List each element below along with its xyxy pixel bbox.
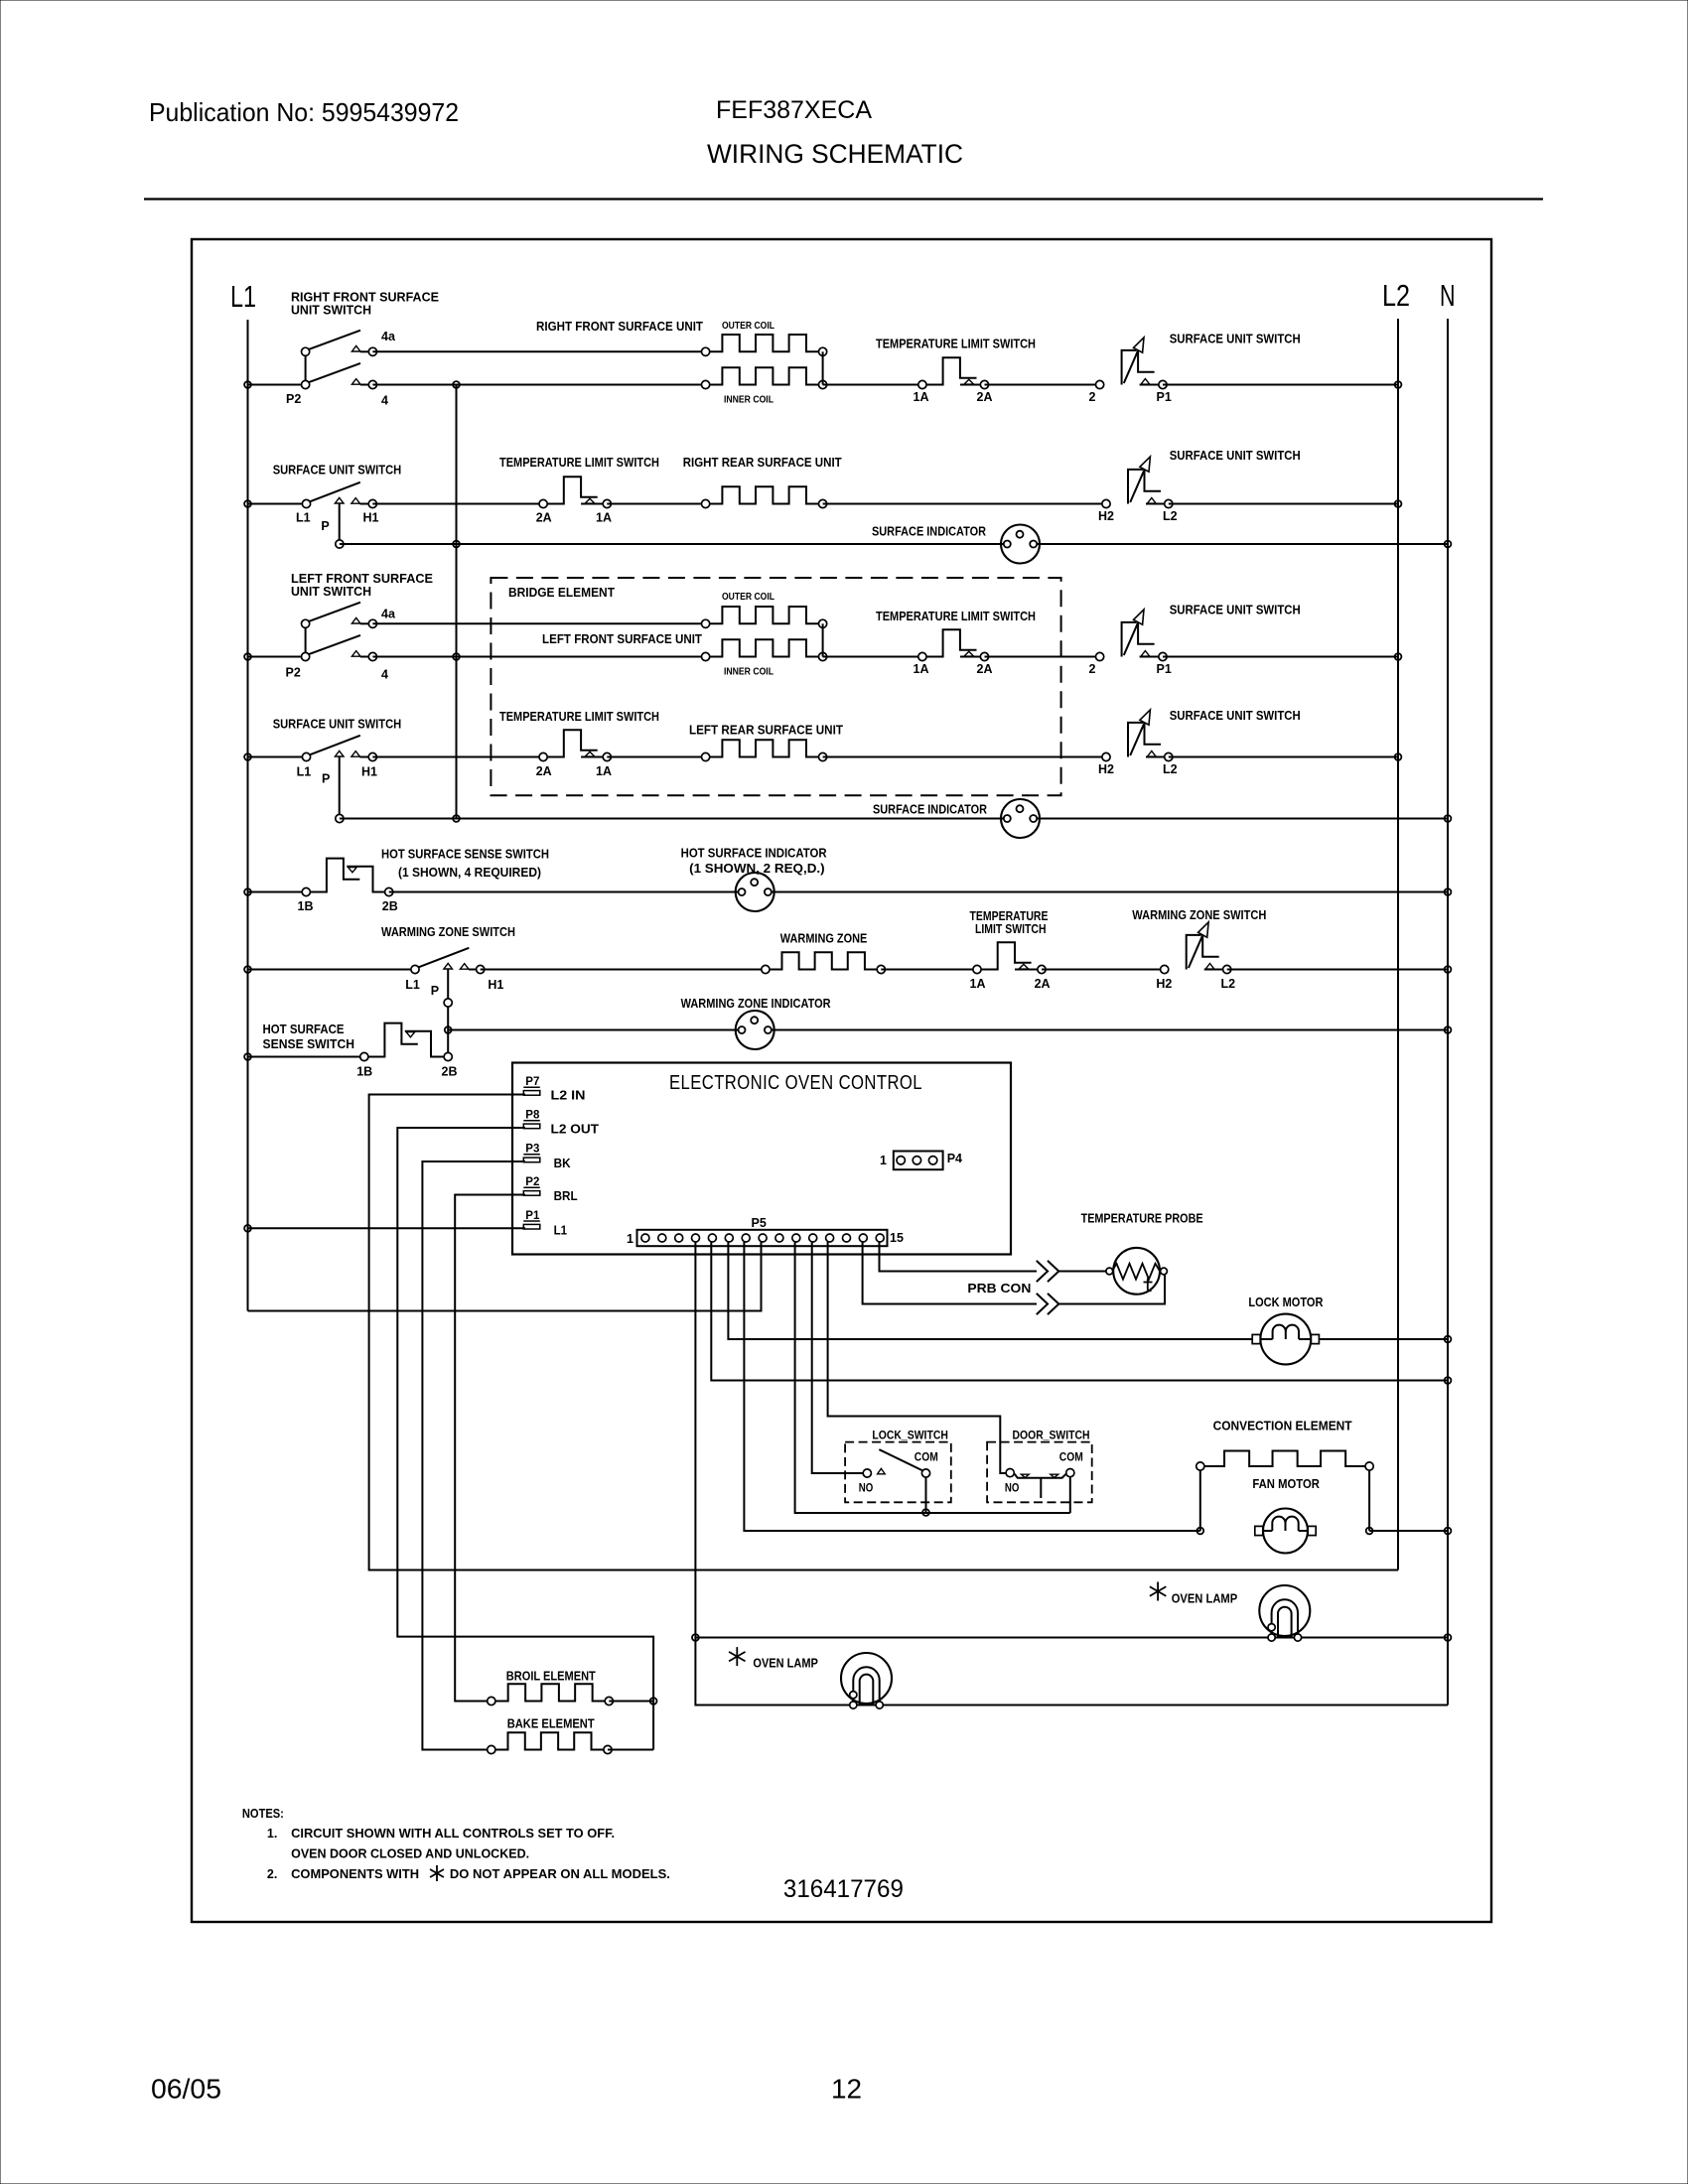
node warming P junction [445,1026,452,1033]
svg-text:2A: 2A [1035,977,1051,991]
wire P3 BK to bake element [422,1161,525,1750]
warming zone switch right H2/L2 [1161,922,1231,974]
svg-text:2A: 2A [536,764,552,778]
svg-text:P7: P7 [525,1076,539,1088]
bake element coil [488,1732,612,1753]
wire row3 L1 to P2 [248,656,306,658]
node P1 on L1 bus [244,1225,251,1232]
svg-text:L1: L1 [296,511,311,525]
wire P2 BRL to broil element [455,1195,525,1702]
connector chevrons PRB feed [1037,1261,1059,1282]
svg-text:NO: NO [1005,1483,1020,1495]
svg-text:2A: 2A [536,511,552,525]
svg-text:1A: 1A [914,390,929,404]
temperature limit switch row1 1A/2A [918,357,989,388]
node pin4 junction oven lamp1 line [692,1634,699,1641]
EOC terminal P7 L2 IN [523,1076,540,1095]
svg-text:P1: P1 [525,1210,540,1222]
node junction row1 on L1 [244,381,251,388]
left front surface unit switch P2/4a/4 [302,603,377,661]
svg-text:1A: 1A [970,977,986,991]
wire P5 pin6 to lock motor [728,1242,1252,1339]
svg-text:COMPONENTS WITH: COMPONENTS WITH [291,1867,419,1881]
node row1 on L2 [1395,381,1402,388]
svg-text:P4: P4 [947,1152,962,1165]
wire 4a to outer coil [372,350,705,352]
svg-text:LOCK_SWITCH: LOCK_SWITCH [872,1431,948,1442]
wire bake to junction [608,1749,653,1751]
oven lamp1 label asterisk [1150,1582,1166,1601]
svg-text:4: 4 [381,394,388,408]
svg-text:L1: L1 [554,1224,568,1238]
svg-text:RIGHT FRONT SURFACE: RIGHT FRONT SURFACE [291,291,439,305]
wire P1 L1 [248,1227,526,1229]
svg-text:1.: 1. [267,1827,277,1841]
svg-text:UNIT SWITCH: UNIT SWITCH [291,304,371,318]
svg-text:Publication No: 5995439972: Publication No: 5995439972 [149,97,459,127]
svg-text:L2: L2 [1221,977,1236,991]
left front surface unit inner coil [702,639,827,660]
svg-text:OUTER COIL: OUTER COIL [722,591,774,603]
svg-text:L2: L2 [1382,278,1410,313]
svg-text:1A: 1A [914,662,929,676]
wire 2A to H2 warming [1042,969,1165,971]
node indicator1 junction x459 [453,541,460,548]
svg-text:TEMPERATURE: TEMPERATURE [970,909,1049,923]
surface unit switch row4 H2/L2 [1102,710,1173,761]
wire oven lamp1 line [695,1637,1448,1639]
wire convection right leg [1368,1470,1370,1531]
node junction row3 / vertical [453,653,460,660]
svg-text:2.: 2. [267,1867,277,1881]
wire P5 pin4 to oven lamps [695,1242,1448,1706]
surface unit switch row1 2/P1 [1096,338,1168,389]
svg-text:P: P [431,984,439,998]
svg-text:COM: COM [1059,1452,1083,1464]
wire warming coil to 1A [881,969,977,971]
node fan line on N [1445,1528,1452,1535]
surface indicator 2 lamp [1001,799,1040,838]
svg-text:WIRING SCHEMATIC: WIRING SCHEMATIC [707,139,963,169]
node hss1 on N [1445,888,1452,895]
svg-text:P: P [322,772,330,786]
right front surface unit switch P2/4a/4 [302,331,377,389]
svg-text:LIMIT SWITCH: LIMIT SWITCH [975,922,1047,936]
node lock COM junction [922,1509,929,1516]
wire warming row left [248,969,416,971]
temperature limit switch warming 1A/2A [973,942,1046,973]
node row2 on L2 [1395,500,1402,507]
node row3 on L2 [1395,653,1402,660]
oven lamp 2 [841,1653,892,1708]
svg-text:TEMPERATURE LIMIT SWITCH: TEMPERATURE LIMIT SWITCH [876,338,1036,351]
node indicator2 on N [1445,815,1452,822]
svg-text:P2: P2 [525,1176,539,1188]
svg-text:2A: 2A [977,390,993,404]
svg-text:2B: 2B [382,899,398,913]
wire L2 terminal to L2 bus row2 [1169,503,1398,505]
wire warming zone indicator line [448,1029,1448,1031]
svg-text:INNER COIL: INNER COIL [724,666,774,678]
svg-text:(1 SHOWN, 2 REQ,D.): (1 SHOWN, 2 REQ,D.) [689,862,825,876]
svg-text:LOCK MOTOR: LOCK MOTOR [1248,1296,1323,1309]
node warming on N [1445,966,1452,973]
svg-text:LEFT FRONT SURFACE: LEFT FRONT SURFACE [291,572,433,586]
svg-text:4a: 4a [381,608,396,621]
warming zone switch L1/P/H1 [411,948,485,1057]
wire convection left leg [1199,1470,1201,1531]
svg-text:NOTES:: NOTES: [242,1807,284,1821]
svg-text:4a: 4a [381,330,396,343]
svg-text:TEMPERATURE LIMIT SWITCH: TEMPERATURE LIMIT SWITCH [876,610,1036,623]
svg-text:CONVECTION ELEMENT: CONVECTION ELEMENT [1213,1420,1352,1433]
wire lock motor to N [1319,1338,1448,1340]
right front surface unit inner coil [702,367,827,388]
svg-text:ELECTRONIC OVEN CONTROL: ELECTRONIC OVEN CONTROL [669,1072,922,1094]
wire P5 pin10 to lock/door COM [795,1242,1070,1513]
svg-text:L1: L1 [405,978,420,992]
svg-text:L2 OUT: L2 OUT [551,1123,600,1137]
svg-text:12: 12 [831,2074,862,2105]
wire H1 to warming coil [481,969,766,971]
svg-text:N: N [1440,278,1456,313]
right front surface unit outer coil [702,335,827,355]
node convection right on fan line [1366,1528,1373,1535]
svg-text:BRIDGE ELEMENT: BRIDGE ELEMENT [508,586,615,600]
svg-text:OVEN LAMP: OVEN LAMP [753,1657,818,1671]
wire coil to H2 row2 [823,503,1106,505]
svg-text:NO: NO [859,1483,874,1495]
svg-text:L1: L1 [297,765,312,779]
surface unit switch row3 2/P1 [1096,610,1168,661]
node junction row1 / vertical drop [453,381,460,388]
connector P5 [637,1230,888,1246]
node row4 on L2 [1395,753,1402,760]
wire row4 L1 to switch [248,756,307,758]
svg-text:COM: COM [914,1452,938,1464]
node hss1 on L1 [244,888,251,895]
svg-text:PRB CON: PRB CON [967,1282,1031,1296]
wire L1 bus vertical [247,320,249,1311]
EOC terminal P3 BK [523,1144,540,1162]
svg-text:FAN MOTOR: FAN MOTOR [1252,1477,1320,1491]
wire P5 pin14 to probe return [863,1242,1037,1304]
wire P7 to L2 bus (L2 IN) [369,1095,1398,1570]
EOC terminal P1 L1 [523,1210,540,1229]
wire 4 to inner coil row3 [372,656,705,658]
svg-text:OVEN DOOR CLOSED AND UNLOCKED.: OVEN DOOR CLOSED AND UNLOCKED. [291,1847,529,1861]
wire 4 to inner coil [372,384,705,386]
svg-text:H2: H2 [1156,977,1172,991]
svg-text:SURFACE UNIT SWITCH: SURFACE UNIT SWITCH [273,464,402,478]
svg-text:BK: BK [554,1157,571,1170]
svg-text:TEMPERATURE LIMIT SWITCH: TEMPERATURE LIMIT SWITCH [499,456,659,470]
svg-text:H2: H2 [1098,762,1114,776]
broil element coil [488,1684,614,1705]
node lamp1 line on N [1445,1634,1452,1641]
svg-text:1B: 1B [298,899,314,913]
svg-text:P1: P1 [1157,662,1172,676]
svg-text:SURFACE UNIT SWITCH: SURFACE UNIT SWITCH [1170,333,1301,346]
svg-text:WARMING ZONE: WARMING ZONE [780,932,868,946]
svg-text:1A: 1A [596,511,612,525]
svg-text:2A: 2A [977,662,993,676]
connector P4 [894,1152,943,1170]
wire row1 L1 to P2 [248,384,306,386]
node wz indicator on N [1445,1026,1452,1033]
svg-text:BRL: BRL [554,1189,578,1203]
svg-text:4: 4 [381,668,388,682]
node indicator1 on N [1445,541,1452,548]
surface unit switch row4 L1/P/H1 [302,736,376,819]
svg-text:H2: H2 [1098,509,1114,523]
surface indicator 1 lamp [1001,525,1040,564]
svg-text:CIRCUIT SHOWN WITH ALL CONTROL: CIRCUIT SHOWN WITH ALL CONTROLS SET TO O… [291,1827,615,1841]
wire coil join vertical [822,351,824,384]
svg-text:INNER COIL: INNER COIL [724,394,774,406]
surface unit switch row2 H2/L2 [1102,457,1173,508]
svg-text:SURFACE INDICATOR: SURFACE INDICATOR [873,803,987,817]
svg-text:L1: L1 [230,279,256,314]
wire P1 to L2 [1163,384,1398,386]
hot surface sense switch 2 1B/2B [360,1024,453,1061]
fan motor [1255,1509,1316,1554]
node convection left on fan line [1196,1528,1203,1535]
hot surface indicator lamp [736,873,774,911]
svg-text:1: 1 [880,1154,887,1167]
svg-text:SENSE SWITCH: SENSE SWITCH [263,1037,355,1051]
wire P5 pin7 to fan motor line [744,1242,1199,1531]
wire H1 to 2A row4 [372,756,543,758]
wire P5 pin12 to door switch NO [828,1242,1007,1473]
wire 1A to coil row2 [607,503,705,505]
wire row2 L1 to switch [248,503,307,505]
svg-text:DO NOT APPEAR ON ALL MODELS.: DO NOT APPEAR ON ALL MODELS. [450,1867,670,1881]
EOC terminal P8 L2 OUT [523,1110,540,1129]
EOC terminal P2 BRL [523,1176,540,1195]
node junction row3 on L1 [244,653,251,660]
title rule [144,198,1543,200]
temperature limit switch row4 2A/1A [539,730,611,760]
wire chevron to probe [1059,1271,1110,1273]
notes asterisk [430,1865,444,1881]
svg-text:2: 2 [1089,390,1096,404]
svg-text:UNIT SWITCH: UNIT SWITCH [291,585,371,599]
svg-text:LEFT REAR SURFACE UNIT: LEFT REAR SURFACE UNIT [689,724,843,738]
node junction row2 on L1 [244,500,251,507]
svg-text:316417769: 316417769 [783,1875,904,1903]
wire 4a to outer coil row3 [372,622,705,624]
electronic oven control box [512,1063,1011,1255]
door switch dashed box [987,1442,1092,1503]
convection element coil [1196,1451,1373,1471]
temperature limit switch row2 2A/1A [539,477,611,507]
svg-text:1: 1 [627,1232,633,1246]
wire L1 bus to P5 pin8 [248,1242,762,1311]
svg-text:WARMING ZONE SWITCH: WARMING ZONE SWITCH [381,925,515,939]
wire inner coil to 1A [823,384,922,386]
bridge element dashed box [491,578,1060,795]
svg-text:DOOR_SWITCH: DOOR_SWITCH [1013,1431,1090,1442]
svg-text:H1: H1 [363,511,379,525]
node broil junction [650,1698,657,1705]
wire fan line to N [1369,1530,1448,1532]
svg-text:SURFACE INDICATOR: SURFACE INDICATOR [872,525,986,539]
node junction row4 on L1 [244,753,251,760]
right rear surface unit coil [702,486,827,507]
svg-text:HOT SURFACE INDICATOR: HOT SURFACE INDICATOR [681,847,827,861]
wire P5 pin5 to N [711,1242,1448,1381]
lock switch dashed box [845,1442,951,1503]
svg-text:WARMING ZONE SWITCH: WARMING ZONE SWITCH [1132,908,1266,922]
wire surface indicator2 line [336,814,1448,822]
warming zone indicator lamp [736,1011,774,1049]
svg-text:SURFACE UNIT SWITCH: SURFACE UNIT SWITCH [1170,709,1301,723]
svg-text:TEMPERATURE PROBE: TEMPERATURE PROBE [1081,1212,1203,1226]
svg-text:TEMPERATURE LIMIT SWITCH: TEMPERATURE LIMIT SWITCH [499,710,659,724]
door switch contacts [1006,1469,1074,1514]
svg-text:P8: P8 [525,1110,540,1122]
lock switch contacts [863,1449,929,1512]
wire L2 terminal to L2 bus row4 [1169,756,1398,758]
svg-text:HOT SURFACE: HOT SURFACE [263,1023,345,1036]
wire inner coil to 1A row3 [823,656,922,658]
hot surface sense switch 1B/2B [302,859,393,896]
svg-text:P1: P1 [1157,390,1172,404]
svg-text:L2 IN: L2 IN [551,1089,586,1103]
wire 2A to 2 [985,384,1100,386]
oven lamp 1 [1259,1585,1310,1641]
wire 1A to coil row4 [607,756,705,758]
node lock motor line on N [1445,1336,1452,1343]
svg-text:OUTER COIL: OUTER COIL [722,320,774,332]
svg-text:LEFT FRONT SURFACE UNIT: LEFT FRONT SURFACE UNIT [542,632,702,646]
svg-text:H1: H1 [488,978,503,992]
svg-text:1A: 1A [596,764,612,778]
node hss2 on L1 [244,1053,251,1060]
node pin5 line on N [1445,1377,1452,1384]
svg-text:BAKE ELEMENT: BAKE ELEMENT [507,1717,595,1731]
svg-text:SURFACE UNIT SWITCH: SURFACE UNIT SWITCH [1170,604,1301,617]
temperature limit switch row3 1A/2A [918,629,989,660]
svg-text:(1 SHOWN, 4 REQUIRED): (1 SHOWN, 4 REQUIRED) [398,866,541,880]
svg-text:P: P [321,519,329,533]
svg-text:FEF387XECA: FEF387XECA [716,96,872,124]
surface unit switch row2 L1/P/H1 [302,482,376,544]
svg-text:P5: P5 [752,1216,767,1230]
wire 2A to 2 row3 [985,656,1100,658]
wire broil to junction [609,1701,653,1703]
node warming on L1 [244,966,251,973]
wire probe return [1059,1272,1166,1304]
wire 2B to N hss1 [389,891,1448,893]
svg-text:H1: H1 [361,765,377,779]
svg-text:2B: 2B [442,1065,458,1079]
wire coil join vertical row3 [822,623,824,656]
left front surface unit outer coil [702,607,827,627]
svg-text:HOT SURFACE SENSE SWITCH: HOT SURFACE SENSE SWITCH [381,848,549,862]
wire L2 bus vertical [1397,319,1399,1570]
svg-text:SURFACE UNIT SWITCH: SURFACE UNIT SWITCH [273,718,402,732]
wire hss1 row left [248,891,307,893]
svg-text:SURFACE UNIT SWITCH: SURFACE UNIT SWITCH [1170,449,1301,463]
lock motor [1252,1314,1319,1365]
wire P8 to broil/bake return (L2 OUT) [397,1128,653,1750]
wire P5 pin11 to lock switch NO [812,1242,864,1473]
svg-text:RIGHT FRONT SURFACE UNIT: RIGHT FRONT SURFACE UNIT [536,320,703,334]
wire P5 pin15 to probe feed [880,1242,1038,1272]
svg-text:2: 2 [1089,662,1096,676]
svg-text:RIGHT REAR SURFACE UNIT: RIGHT REAR SURFACE UNIT [683,456,842,470]
temperature probe [1106,1248,1168,1295]
warming zone coil [762,952,886,973]
wire warming L2 terminal to N [1227,969,1448,971]
wire junction vertical drop x459 [456,385,458,819]
schematic border [192,239,1491,1922]
wire coil to H2 row4 [823,756,1106,758]
oven lamp2 label asterisk [729,1647,745,1666]
svg-text:P2: P2 [286,666,301,680]
wire N bus vertical [1447,319,1449,1706]
svg-text:OVEN LAMP: OVEN LAMP [1172,1592,1238,1606]
svg-text:P3: P3 [525,1144,539,1156]
wire H1 to 2A row2 [372,503,543,505]
svg-text:BROIL ELEMENT: BROIL ELEMENT [506,1670,596,1684]
node indicator2 junction x459 [453,815,460,822]
svg-text:L2: L2 [1163,509,1178,523]
svg-text:15: 15 [890,1231,904,1245]
svg-text:06/05: 06/05 [151,2074,221,2105]
svg-text:P2: P2 [286,392,301,406]
svg-text:1B: 1B [356,1065,372,1079]
svg-text:WARMING ZONE INDICATOR: WARMING ZONE INDICATOR [681,997,831,1011]
connector chevrons PRB return [1037,1294,1059,1314]
svg-text:L2: L2 [1163,762,1178,776]
wire hss2 row left [248,1056,364,1058]
wire surface indicator1 line [336,540,1448,548]
wire P1 to L2 row3 [1163,656,1398,658]
left rear surface unit coil [702,740,827,760]
